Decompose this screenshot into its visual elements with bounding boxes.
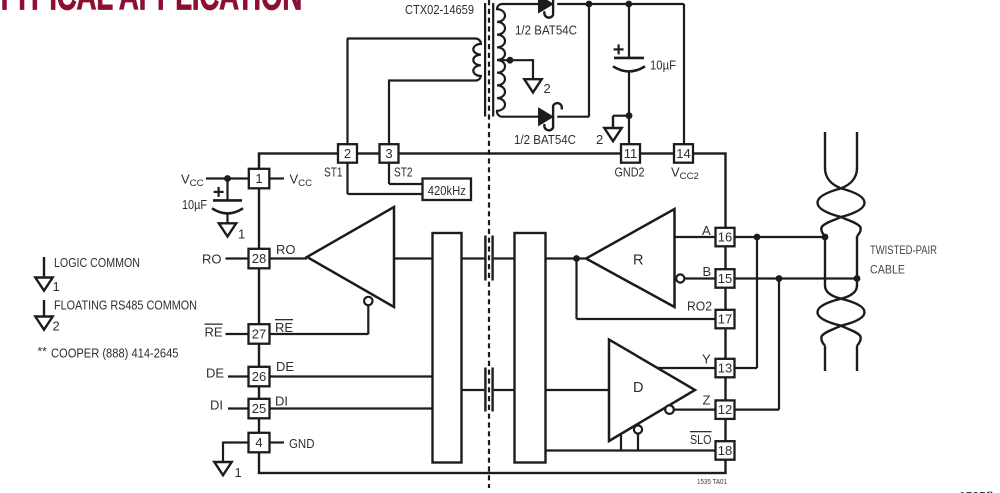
pin 26 DE (249, 367, 270, 387)
svg-text:14: 14 (676, 146, 690, 161)
svg-text:FLOATING RS485 COMMON: FLOATING RS485 COMMON (54, 298, 197, 313)
wire buffer input from isolation block (394, 257, 433, 259)
wire RO to pin 28 (226, 257, 249, 259)
driver enable bubble (634, 425, 642, 433)
svg-text:Z: Z (703, 393, 711, 408)
ground 1 (VCC cap) (219, 223, 245, 242)
wire RE to pin 27 (226, 333, 249, 335)
diode D2 1/2 BAT54C (bottom) (539, 103, 562, 130)
ground 2 (near pin 11) (604, 116, 621, 142)
svg-text:13: 13 (718, 361, 732, 376)
node A-Y junction (754, 234, 761, 241)
wire Z output to pin 12 (674, 409, 716, 411)
wire VCC to pin 1 (206, 177, 249, 179)
buffer enable bubble (364, 297, 372, 305)
wire A to cable (735, 236, 826, 238)
pin 18 SLO (716, 441, 735, 460)
svg-text:DI: DI (210, 398, 223, 413)
oscillator 420kHz box (423, 179, 472, 201)
isolation capacitor (bottom) (462, 368, 515, 412)
svg-text:16: 16 (718, 230, 732, 245)
svg-text:RO: RO (276, 242, 296, 257)
svg-text:R: R (633, 253, 643, 269)
svg-text:15: 15 (718, 271, 732, 286)
pin 11 GND2 (621, 144, 640, 163)
wire pin28 to buffer (270, 257, 308, 259)
ground symbol legend 1 (35, 257, 52, 291)
svg-text:VCC: VCC (181, 172, 204, 190)
svg-text:COOPER (888) 414-2645: COOPER (888) 414-2645 (51, 346, 179, 361)
svg-text:25: 25 (252, 401, 266, 416)
svg-text:D: D (633, 380, 643, 396)
svg-text:1: 1 (53, 279, 60, 294)
driver D triangle (609, 340, 695, 442)
node GND2 junction (626, 112, 633, 119)
svg-text:17: 17 (718, 312, 732, 327)
pin 13 Y (716, 359, 735, 378)
driver Z output bubble (665, 405, 674, 414)
svg-text:**: ** (38, 345, 48, 359)
svg-text:3: 3 (385, 146, 392, 161)
svg-text:ST1: ST1 (324, 165, 343, 180)
wire SLO bubble riser (637, 434, 639, 451)
pin 4 GND (249, 433, 270, 453)
capacitor C2 10µF (VCC2 bypass) (613, 4, 645, 145)
wire B to cable (735, 277, 858, 279)
wire bottom diode cathode (557, 116, 589, 118)
op-amp buffer U1a (RO) (307, 207, 394, 307)
svg-text:2: 2 (344, 146, 351, 161)
node VCC cap junction (224, 175, 231, 182)
svg-text:RO2: RO2 (687, 299, 712, 314)
wire center tap to ground (532, 59, 534, 78)
twisted-pair cable (818, 132, 865, 371)
svg-text:26: 26 (252, 369, 266, 384)
wire SLO / enable (546, 449, 716, 451)
pin 1 VCC (249, 169, 269, 189)
capacitor C1 10µF (VCC bypass) (212, 179, 243, 223)
wire B input to pin 15 (685, 277, 716, 279)
svg-text:GND2: GND2 (615, 165, 645, 180)
pin 3 ST2 (380, 144, 399, 163)
svg-text:A: A (702, 223, 711, 238)
node B cable tap (854, 275, 861, 282)
node top rail junction 2 (625, 1, 632, 8)
svg-text:CTX02-14659: CTX02-14659 (405, 2, 474, 17)
wire pin3 to oscillator (388, 163, 390, 184)
svg-text:10µF: 10µF (650, 58, 676, 73)
node top rail junction 1 (586, 1, 593, 8)
ground 1 (pin 4) (214, 462, 241, 481)
pin 16 A (716, 228, 735, 247)
wire pin27 to buffer enable (270, 333, 369, 335)
wire top rail VCC2 (557, 3, 684, 5)
node R output junction (573, 255, 580, 262)
svg-text:RE: RE (275, 320, 293, 335)
wire A to Y tie (756, 237, 758, 368)
pin 14 VCC2 (674, 144, 693, 163)
svg-text:VCC2: VCC2 (671, 165, 699, 183)
svg-text:2: 2 (53, 319, 60, 334)
svg-text:11: 11 (624, 146, 638, 161)
pin 12 Z (716, 400, 735, 419)
wire to ground 2 (613, 115, 629, 117)
wire A input to pin 16 (675, 236, 716, 238)
wire B to Z tie (778, 279, 780, 410)
svg-text:1/2 BAT54C: 1/2 BAT54C (514, 132, 576, 147)
svg-text:ST2: ST2 (394, 165, 413, 180)
svg-text:18: 18 (718, 443, 732, 458)
svg-text:1: 1 (238, 227, 245, 242)
wire pin25 to isolation block (270, 407, 433, 409)
svg-text:1: 1 (255, 171, 262, 186)
svg-text:DE: DE (206, 366, 224, 381)
svg-text:2: 2 (596, 132, 603, 147)
pin 15 B (716, 269, 735, 288)
node B-Z junction (776, 275, 783, 282)
wire pin4 stub right (270, 441, 285, 443)
wire bottom diode return (588, 4, 590, 117)
svg-text:1535 TA01: 1535 TA01 (697, 477, 727, 486)
pin 17 RO2 (716, 310, 735, 329)
svg-text:28: 28 (252, 251, 266, 266)
wire pin2 to oscillator (346, 163, 348, 194)
svg-text:2: 2 (544, 81, 551, 96)
svg-text:TYPICAL APPLICATION: TYPICAL APPLICATION (0, 0, 302, 19)
wire pin3 to transformer primary bottom (388, 81, 390, 146)
wire pin1 stub up (258, 154, 260, 170)
wire DI to pin 25 (228, 407, 249, 409)
svg-text:1: 1 (235, 465, 242, 480)
wire RO2 riser (575, 259, 577, 320)
receiver R triangle (586, 209, 675, 307)
svg-text:GND: GND (289, 436, 315, 451)
svg-text:CABLE: CABLE (870, 263, 905, 277)
svg-text:1/2 BAT54C: 1/2 BAT54C (515, 23, 577, 38)
pin 25 DI (249, 399, 270, 419)
wire R output to isolation block (546, 257, 587, 259)
IC body LTC1535 outline (259, 154, 726, 474)
svg-text:420kHz: 420kHz (428, 183, 466, 198)
svg-text:B: B (703, 264, 712, 279)
isolation interface block (logic side) (433, 233, 462, 463)
svg-text:TWISTED-PAIR: TWISTED-PAIR (870, 243, 937, 257)
wire VCC2 rail down to pin 14 (683, 4, 685, 145)
svg-text:12: 12 (718, 402, 732, 417)
wire pin26 to isolation block (270, 375, 433, 377)
svg-text:RE: RE (205, 325, 223, 340)
svg-text:RO: RO (202, 252, 222, 267)
node A cable tap (822, 234, 829, 241)
svg-text:DI: DI (275, 394, 288, 409)
transformer T1 primary winding (347, 39, 481, 81)
wire secondary center tap (497, 59, 533, 61)
wire pin4 to ground (223, 441, 249, 443)
receiver B input bubble (676, 274, 684, 282)
wire Y output to pin 13 (658, 367, 716, 369)
transformer T1 CTX02-14659 core (484, 3, 486, 117)
svg-text:LOGIC COMMON: LOGIC COMMON (54, 255, 140, 270)
svg-text:10µF: 10µF (182, 197, 207, 212)
svg-text:1535fb: 1535fb (959, 490, 997, 493)
pin 2 ST1 (338, 144, 357, 163)
svg-text:SLO: SLO (690, 432, 712, 447)
node center tap junction (507, 57, 514, 64)
pin 27 RE (249, 324, 270, 344)
wire RE riser (367, 305, 369, 334)
isolation barrier dashed line (488, 0, 490, 488)
wire D input from isolation block (546, 389, 610, 391)
isolation interface block (RS485 side) (515, 233, 546, 463)
svg-text:27: 27 (252, 327, 266, 342)
isolation capacitor (top) (462, 236, 515, 281)
svg-text:VCC: VCC (290, 172, 313, 190)
wire DE to pin 26 (228, 375, 249, 377)
svg-text:DE: DE (276, 359, 294, 374)
svg-text:4: 4 (255, 435, 262, 450)
transformer T1 secondary winding (497, 4, 539, 117)
pin 28 RO (249, 249, 270, 268)
ground symbol legend 2 (35, 300, 52, 330)
wire enable riser (620, 433, 622, 451)
wire pin1 to VCC label (270, 177, 285, 179)
ground 2 (center tap) (524, 79, 550, 97)
wire pin2 to transformer primary top (346, 39, 348, 146)
diode D1 1/2 BAT54C (top) (539, 0, 562, 18)
wire RO2 to pin 17 (577, 318, 716, 320)
svg-text:Y: Y (702, 352, 711, 367)
